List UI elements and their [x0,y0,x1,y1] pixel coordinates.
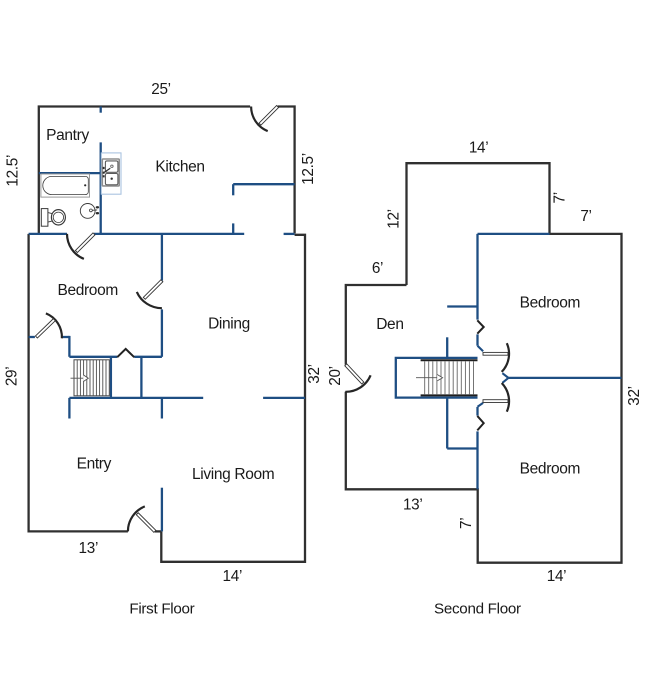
opening caret: upper closet cased opening [477,320,483,333]
wall: bedroom bottom right stub (interior) [62,336,69,338]
kitchen sink lower basin [105,174,118,185]
stairs second floor bottom edge [421,394,478,396]
svg-text:14’: 14’ [469,140,489,157]
wall: hall/bedroom divider segment 1 (interior) [476,234,478,320]
wall: closet left vertical upper (interior) [68,336,70,357]
kitchen counter outline [101,153,121,194]
stairs second floor arrow head [437,375,442,381]
bathroom sink tap handle upper [96,206,99,208]
bathroom sink bowl [80,204,95,219]
wall: stair hall bottom long wall (interior) [69,397,203,399]
wall: hall/bedroom divider segment 2 (interior) [476,334,478,345]
svg-text:Entry: Entry [77,455,112,472]
wall: bedroom/dining divider upper segment (interior) [161,234,163,281]
wall: stair hall top left segment (interior) [69,356,117,358]
kitchen sink faucet handle [104,168,111,173]
door: kitchen exterior door leaf [259,106,279,126]
wall: first floor lower left wall + bottom-left wall (exterior) [29,234,128,532]
wall: mid divider y=234 left of bathroom door (interior) [29,233,67,235]
svg-text:Pantry: Pantry [46,127,89,144]
svg-text:13’: 13’ [403,497,423,514]
svg-text:Living Room: Living Room [192,466,274,483]
svg-text:7’: 7’ [458,518,475,529]
stairs first floor direction arrow head [83,375,88,382]
opening caret: lower closet cased opening [477,416,483,431]
wall: first floor kitchen top-right segment + right wall (exterior) [278,107,295,234]
wall: lower closet left vertical (interior) [446,398,448,449]
svg-text:12.5’: 12.5’ [300,153,317,185]
door: lower bedroom door swing arc [502,383,509,412]
svg-text:32’: 32’ [626,386,643,406]
svg-text:20’: 20’ [327,366,344,386]
wall: second floor top box (exterior) [407,163,550,285]
svg-text:Bedroom: Bedroom [520,460,580,477]
svg-text:14’: 14’ [547,568,567,585]
opening caret: stair hall cased opening [117,349,134,357]
wall: upper closet shelf tick (interior) [447,305,477,307]
toilet tank [41,209,48,227]
wall: bedroom divider chevron end (interior) [502,373,508,383]
stairs second floor top edge [421,359,478,361]
wall: stair enclosure second floor (interior) [396,358,478,398]
kitchen sink upper basin [105,161,118,172]
wall: mid divider y=234 right segment (interior) [284,233,295,235]
toilet bowl outer [51,210,65,225]
wall: bedroom bottom left stub (interior) [29,336,35,338]
wall: upper bedroom top (interior) [478,233,550,235]
svg-text:Bedroom: Bedroom [520,295,580,312]
door: bedroom left door leaf [35,319,55,338]
wall: first floor kitchen left + top-left segment (exterior) [39,107,250,234]
door: bathroom door leaf [75,233,95,253]
wall: upper closet left vertical (interior) [446,337,448,358]
door: bedroom left door swing arc [46,313,62,338]
door: entry front door swing arc [128,506,145,531]
wall: stair hall top right segment (interior) [134,356,162,358]
svg-text:7’: 7’ [551,192,568,203]
door: entry front door leaf [136,513,156,533]
kitchen sink unit frame [102,159,119,186]
stairs second floor arrow shaft [416,377,438,379]
wall: entry closet vertical below (interior) [68,398,70,419]
wall: entry/living divider lower segment (interior) [161,488,163,532]
wall: hall/bedroom divider segment 3 (interior) [476,407,478,416]
wall: entry/living divider upper stub (interior) [161,398,163,419]
wall: bedroom divider horizontal (interior) [508,377,621,379]
svg-text:14’: 14’ [223,568,243,585]
wall: hall/bedroom divider segment 4 (interior) [476,431,478,489]
svg-text:25’: 25’ [151,81,171,98]
wall: lower door jamb diagonal tick (interior) [478,403,484,407]
door: den entry door leaf [345,364,364,384]
kitchen sink lower drain [111,178,113,180]
wall: kitchen nook horizontal (interior) [233,183,294,185]
svg-text:32’: 32’ [306,364,323,384]
svg-text:6’: 6’ [372,260,383,277]
bathtub basin [43,176,89,194]
svg-text:12.5’: 12.5’ [5,155,22,187]
toilet bowl inner [53,212,63,222]
wall: upper door jamb diagonal tick (interior) [478,346,484,352]
wall: pantry divider top tick (interior) [100,107,102,113]
stairs first floor direction arrow shaft [71,377,84,379]
bathtub drain [84,184,86,186]
wall: second floor right side + bottom + den bottom (exterior) [346,234,622,563]
door: upper bedroom door leaf [483,352,508,355]
wall: bedroom/dining divider lower segment (interior) [161,309,163,356]
svg-text:29’: 29’ [4,367,21,387]
door: bedroom side door swing arc [137,292,162,308]
svg-text:Bedroom: Bedroom [57,282,117,299]
wall: bathroom top wall (interior) [39,172,101,174]
svg-text:Kitchen: Kitchen [155,158,204,175]
wall: closet right vertical (interior) [140,357,142,398]
wall: pantry/bath divider below pantry door (interior) [100,142,102,234]
bathroom sink tap handle lower [96,212,99,214]
svg-text:Second Floor: Second Floor [434,601,521,618]
svg-text:Dining: Dining [208,316,250,333]
wall: kitchen nook upper tick (interior) [232,184,234,195]
svg-text:7’: 7’ [580,208,591,225]
door: lower bedroom door leaf [483,400,508,403]
bathtub surround [41,174,90,197]
toilet connector [48,213,54,223]
wall: lower closet bottom (interior) [447,447,477,449]
stairs second floor treads [425,361,474,394]
door: den entry door swing arc [345,375,370,392]
bathroom sink spout [92,209,97,211]
svg-text:First Floor: First Floor [129,601,194,618]
svg-text:12’: 12’ [386,209,403,229]
door: bedroom side door leaf [143,280,163,300]
door: bathroom door swing arc [67,234,84,259]
svg-text:Den: Den [376,316,403,333]
wall: mid divider y=234 bathroom door to dining opening (interior) [94,233,244,235]
kitchen sink faucet fixture blocks [103,167,105,178]
wall: dining/living bottom right segment (interior) [263,397,305,399]
kitchen sink upper drain [111,165,113,167]
wall: second floor left wall upper + 6ft step (exterior) [346,285,407,365]
bathroom sink drain [90,209,93,212]
wall: stair right vertical (interior) [110,357,112,398]
stairs first floor box [74,360,109,396]
wall: entry door stub at bottom (exterior) [155,530,161,532]
door: kitchen exterior door swing arc [251,107,268,132]
svg-text:13’: 13’ [79,540,99,557]
wall: first floor lower-right step, right wall, bottom wall and bottom step (exterior) [161,235,305,562]
stairs first floor treads [77,360,106,396]
wall: kitchen nook lower tick (interior) [232,223,234,234]
door: upper bedroom door swing arc [502,343,509,372]
